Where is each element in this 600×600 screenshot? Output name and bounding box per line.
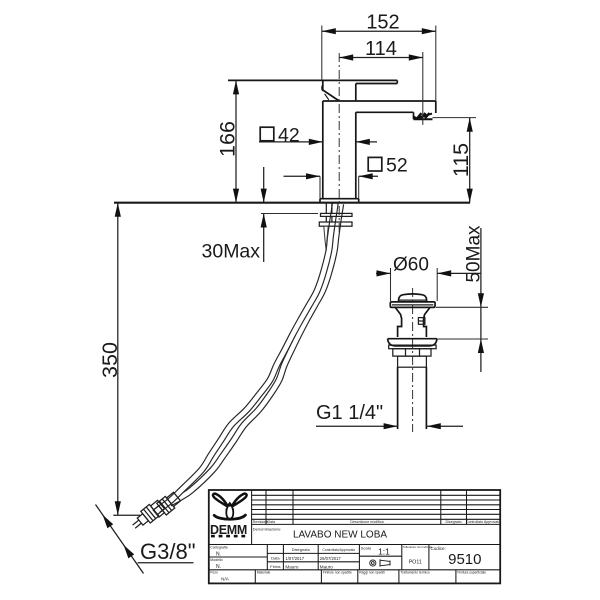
hose A (front) <box>158 204 335 510</box>
svg-text:9510: 9510 <box>448 551 481 568</box>
lock nut <box>393 349 431 356</box>
svg-text:Materiale: Materiale <box>257 571 271 575</box>
dim 152 <box>321 26 323 81</box>
lever right end <box>396 80 398 83</box>
svg-text:42: 42 <box>278 124 300 146</box>
dim 350 <box>117 203 119 516</box>
head chamfer <box>323 90 339 101</box>
hose B (back) <box>170 204 341 504</box>
left column cells <box>266 545 268 570</box>
tolleranze cell <box>428 545 430 570</box>
svg-text:166: 166 <box>216 121 240 157</box>
neck <box>395 308 401 337</box>
svg-text:115: 115 <box>449 143 473 177</box>
lever underside <box>356 83 398 85</box>
svg-text:152: 152 <box>366 11 399 33</box>
svg-text:Cartografia: Cartografia <box>210 546 227 550</box>
head back edge <box>355 84 357 102</box>
svg-text:Codice:: Codice: <box>431 546 446 551</box>
threaded tube <box>397 367 399 429</box>
spout bottom <box>356 111 414 113</box>
svg-text:Disegnato: Disegnato <box>292 547 311 552</box>
front connector G3/8 <box>129 499 166 533</box>
svg-text:30Max: 30Max <box>202 241 261 263</box>
svg-text:1/07/2017: 1/07/2017 <box>285 556 304 561</box>
svg-text:Mauro: Mauro <box>285 564 298 569</box>
head front edge <box>322 80 324 89</box>
lower dish <box>388 338 437 340</box>
deck / countertop line <box>114 202 470 204</box>
svg-text:Denominazione: Denominazione <box>253 527 282 532</box>
dim 50Max <box>480 228 482 372</box>
svg-text:350: 350 <box>98 342 122 378</box>
svg-text:Mauro: Mauro <box>320 564 333 569</box>
svg-text:Disegnato: Disegnato <box>446 520 462 524</box>
svg-text:PO11: PO11 <box>409 560 422 566</box>
dim 42 <box>260 127 274 141</box>
body right edge <box>355 112 357 198</box>
threaded shank <box>325 203 327 214</box>
G3/8 leader <box>96 505 144 574</box>
svg-text:Peso: Peso <box>210 571 218 575</box>
svg-text:52: 52 <box>386 154 408 176</box>
scala cell <box>359 555 401 557</box>
overflow notch <box>418 318 425 325</box>
top flange <box>390 302 435 308</box>
svg-text:Data: Data <box>268 520 276 524</box>
washer under deck <box>321 213 353 216</box>
bottom row <box>209 569 500 571</box>
svg-text:Scala: Scala <box>361 546 372 551</box>
svg-text:50Max: 50Max <box>464 225 485 283</box>
svg-text:114: 114 <box>365 38 397 60</box>
svg-text:N.: N. <box>216 552 221 558</box>
mounting nut <box>319 222 352 226</box>
svg-text:G3/8": G3/8" <box>140 539 196 564</box>
svg-text:1:1: 1:1 <box>378 547 390 557</box>
115 extension from aerator <box>433 117 477 119</box>
back connector G3/8 <box>151 491 181 520</box>
spout top <box>323 100 436 102</box>
plug cap <box>399 294 427 302</box>
svg-text:Trattamento termico: Trattamento termico <box>400 571 430 575</box>
revision table rows <box>252 494 501 496</box>
svg-text:G1 1/4": G1 1/4" <box>316 402 383 424</box>
svg-text:Raggi non spediti: Raggi non spediti <box>359 571 385 575</box>
svg-text:Controllato/Approvato: Controllato/Approvato <box>322 548 355 552</box>
pop-up rod <box>324 226 328 251</box>
dim 52 <box>368 157 382 171</box>
faucet base <box>320 198 359 200</box>
svg-text:Descrizione modifica: Descrizione modifica <box>350 520 383 524</box>
svg-text:N.: N. <box>216 564 221 570</box>
svg-text:26/07/2017: 26/07/2017 <box>320 556 342 561</box>
svg-text:Controllato Approvato: Controllato Approvato <box>466 520 501 524</box>
dim 114 <box>422 52 424 125</box>
svg-text:Tolleranze non indicate: Tolleranze non indicate <box>403 545 433 549</box>
dim Ø60 <box>390 268 392 301</box>
drain centerline <box>412 288 414 432</box>
svg-text:Ø60: Ø60 <box>393 255 429 276</box>
svg-text:Firma: Firma <box>270 564 281 569</box>
dim 166 <box>235 80 237 202</box>
svg-text:Revisione: Revisione <box>253 520 269 524</box>
svg-text:N/A: N/A <box>221 577 230 582</box>
washer bar <box>389 345 436 349</box>
DEMM logo <box>210 494 247 538</box>
dim 30Max <box>263 167 265 203</box>
data / firma <box>282 545 284 570</box>
svg-text:Finiture non spedite: Finiture non spedite <box>323 571 352 575</box>
svg-text:Finitura superficiale: Finitura superficiale <box>457 571 486 575</box>
aerator <box>413 112 415 119</box>
svg-text:Data: Data <box>271 556 280 561</box>
DEMM logo box <box>251 490 253 545</box>
spout right end <box>435 101 437 113</box>
svg-text:LAVABO NEW LOBA: LAVABO NEW LOBA <box>293 529 387 540</box>
body left edge <box>322 101 324 199</box>
svg-text:Modello: Modello <box>210 558 222 562</box>
faucet centerline <box>338 53 340 232</box>
outer border <box>209 490 500 583</box>
faucet top line + 166 extension <box>228 79 397 81</box>
projection symbol <box>370 559 390 567</box>
dim 115 <box>469 118 471 203</box>
